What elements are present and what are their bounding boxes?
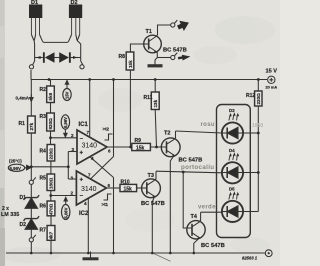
sensor diode right (cathode bar right) — [59, 52, 77, 63]
node T3 collector / T4 base — [182, 171, 185, 174]
resistor R5 — [47, 174, 55, 201]
resistor R6 — [47, 201, 55, 226]
resistor R12 — [255, 80, 262, 212]
node sensor vertical — [67, 165, 70, 168]
plug (socket) left sensor — [29, 65, 33, 69]
op-amp IC2 — [76, 171, 120, 253]
sensor diode pair wire — [35, 57, 43, 59]
diode D1 (LM335 zener) — [24, 185, 40, 219]
wire tap R3/R4 to IC1 pin2 — [51, 137, 78, 139]
wire R9 to T2 base — [150, 146, 166, 148]
resistor R1 — [28, 80, 36, 167]
output plug bottom (emitter) — [171, 53, 178, 60]
terminal bottom right — [265, 250, 272, 257]
wire tap R5/R6 to IC2 pin2 — [51, 195, 77, 197]
wire to IC2 pin3 — [68, 178, 76, 180]
node R12 bus — [257, 78, 260, 81]
transistor T1 — [144, 25, 171, 66]
node IC2 pin7 bus — [112, 78, 115, 81]
sensor diode left (cathode bar left) — [36, 52, 54, 63]
node bottom bus junctions — [30, 252, 33, 255]
node sensor/R1 — [30, 165, 33, 168]
ground symbol — [83, 252, 99, 259]
current arrow 0.4mA — [30, 94, 34, 102]
sensor assembly: transistor package D2 — [69, 5, 83, 65]
IC2 pin7 diagonal to +15V line — [90, 157, 114, 180]
sensor series bridge wire — [43, 41, 69, 44]
waveform mark t1 — [104, 194, 112, 200]
node D3 right — [257, 132, 260, 135]
wire bus left corner up to plug — [30, 70, 32, 80]
sensor assembly: transistor package D1 — [29, 5, 43, 65]
vertical IC1 pin4 to ground — [113, 178, 115, 254]
transistor T2 — [161, 131, 222, 253]
plug socket above D1 — [29, 167, 36, 185]
node R2 top — [48, 78, 51, 81]
resistor R9 (horizontal) — [132, 143, 151, 150]
test point oval 5.96V — [8, 164, 31, 171]
bottom ground bus wire — [6, 252, 265, 254]
LED D5 — [222, 191, 259, 222]
test point oval 5.06V — [61, 197, 69, 219]
resistor R2 — [47, 80, 55, 103]
resistor R4 — [47, 145, 55, 175]
resistor R10 (horizontal) — [120, 184, 137, 191]
LED D4 — [222, 152, 259, 183]
node R8/R9 — [129, 146, 132, 149]
output arrow top — [176, 18, 192, 33]
resistor R3 — [47, 103, 55, 145]
op-amp IC1 — [77, 80, 132, 165]
resistor R11 — [151, 80, 159, 148]
node R11 bus — [154, 78, 157, 81]
test point oval 6.96V — [61, 115, 69, 137]
node IC1 pin7 bus — [88, 78, 91, 81]
wire sensor node to IC inputs vertical — [67, 152, 69, 180]
node R3/R4 tap — [49, 136, 52, 139]
scan fold artifact — [153, 253, 171, 261]
LED D3 — [222, 112, 258, 143]
wire sensor node line — [51, 166, 68, 168]
LED column box — [217, 105, 251, 238]
wire T3 collector to T4 base — [183, 172, 192, 228]
output plug top (collector) — [171, 20, 178, 27]
transistor T3 — [142, 171, 222, 253]
transistor T4 — [187, 212, 222, 253]
waveform mark t2 — [105, 134, 113, 140]
resistor R7 — [47, 226, 55, 254]
node D4 right — [257, 171, 260, 174]
top bus +15V wire — [31, 79, 267, 81]
diode D2 (LM335 zener) — [24, 216, 40, 237]
plug socket below D2 — [29, 235, 36, 253]
resistor R8 — [126, 44, 144, 147]
plug (socket) right sensor — [80, 65, 84, 69]
terminal +15V — [268, 76, 275, 83]
vertical +15V to IC2 pin7 — [113, 80, 115, 157]
node R11/T2 base — [155, 146, 158, 149]
IC1 pin4 diagonal to ground line — [90, 157, 114, 178]
test point oval 15V — [63, 81, 71, 101]
node R5/R6 tap — [49, 194, 52, 197]
wire R10 to T3 base — [137, 187, 147, 189]
wire to IC1 pin3 — [68, 151, 77, 153]
output arrow bottom (flat) — [178, 54, 191, 61]
